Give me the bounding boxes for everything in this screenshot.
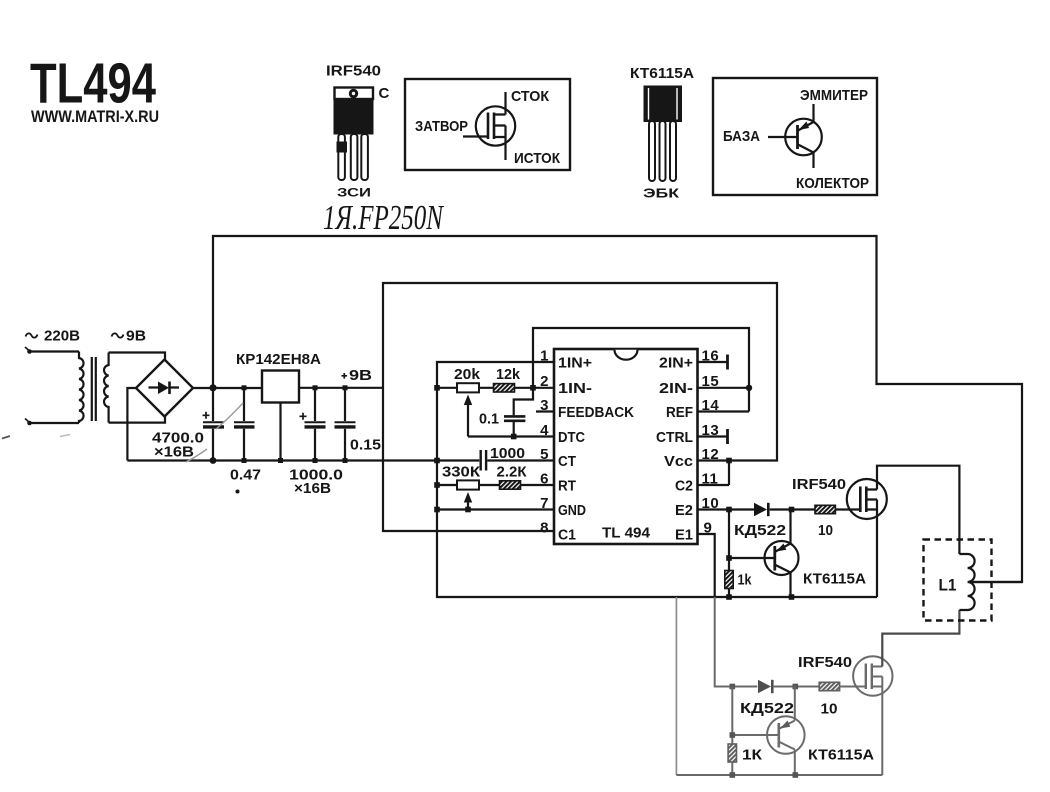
label IRF540 (package) <box>326 63 381 80</box>
pin 5 label CT <box>558 454 576 470</box>
pin 6 label RT <box>558 479 576 495</box>
junction diode-resistor node (upper) <box>789 507 795 513</box>
svg-text:RT: RT <box>558 479 576 495</box>
wire E2 branch to 1k and base <box>728 510 730 598</box>
wire diode to resistor (lower) <box>774 686 820 688</box>
junction raw+ at 1000 <box>313 385 318 390</box>
label КОЛЕКТОР <box>796 175 869 192</box>
pin 3 label FEEDBACK <box>558 405 634 421</box>
pin number 12 <box>702 446 720 463</box>
resistor 12k <box>494 384 515 392</box>
wire CT row <box>487 459 554 461</box>
pin number 14 <box>702 397 720 414</box>
svg-text:9В: 9В <box>349 367 372 384</box>
pin 9 label E1 <box>675 528 693 544</box>
junction base node (lower) <box>730 732 736 738</box>
transformer T1 primary winding <box>79 352 84 424</box>
junction lower rail at 1К <box>730 772 736 778</box>
wire base (lower) <box>732 734 778 736</box>
label БАЗА <box>723 128 760 145</box>
label 10 (lower) <box>821 701 838 718</box>
pin 4 label DTC <box>558 430 585 446</box>
capacitor 4700.0x16В <box>203 388 225 461</box>
svg-text:10: 10 <box>821 701 838 718</box>
svg-text:2IN+: 2IN+ <box>659 356 693 372</box>
wire pin16 stub <box>698 355 728 370</box>
svg-text:0.1: 0.1 <box>479 411 499 428</box>
svg-text:20k: 20k <box>454 366 481 383</box>
svg-text:2.2К: 2.2К <box>497 464 528 481</box>
MOSFET pinout info box <box>405 79 570 170</box>
junction ground rail at collector <box>789 594 795 600</box>
wire gate (lower) <box>840 686 866 688</box>
wire L1 centre tap <box>969 581 1022 583</box>
wire pin15 to link <box>698 387 750 389</box>
transformer T1 secondary winding <box>104 353 109 423</box>
junction link at pin15 <box>746 385 752 391</box>
pin number 9 <box>704 520 713 537</box>
svg-text:L1: L1 <box>939 576 957 595</box>
svg-text:БАЗА: БАЗА <box>723 128 760 145</box>
wire base (upper) <box>729 557 774 559</box>
svg-text:CT: CT <box>558 454 576 470</box>
wire pin2 row <box>437 387 554 389</box>
svg-text:C: C <box>379 85 390 102</box>
potentiometer 330К <box>457 480 479 509</box>
svg-text:CTRL: CTRL <box>656 430 693 446</box>
label КР142ЕН8А <box>236 351 321 368</box>
svg-text:×16В: ×16В <box>294 480 331 497</box>
label 330К <box>442 464 481 481</box>
svg-text:КТ6115А: КТ6115А <box>630 65 694 82</box>
svg-text:КД522: КД522 <box>734 522 786 539</box>
label КТ6115А (lower) <box>808 747 874 764</box>
junction gnd at 0.47 <box>242 458 247 463</box>
pin letters ЗСИ <box>337 188 371 200</box>
svg-text:1IN-: 1IN- <box>558 381 592 397</box>
title TL494 <box>30 52 156 115</box>
MOSFET IRF540 (upper) <box>847 479 887 519</box>
pin 13 label CTRL <box>656 430 693 446</box>
label 1К (lower) <box>742 747 763 764</box>
diode КД522 (upper) <box>754 503 768 516</box>
svg-text:0.15: 0.15 <box>350 437 381 454</box>
wire ground bus (pin1 row, vertical bus, bottom rail) <box>437 362 877 597</box>
wire E1 branch to 1К and base (lower) <box>731 687 733 776</box>
svg-text:GND: GND <box>558 503 586 519</box>
label СТОК <box>511 88 550 105</box>
wire E2 pin10 row <box>698 508 816 510</box>
svg-text:TL 494: TL 494 <box>602 526 650 542</box>
svg-text:REF: REF <box>666 405 693 421</box>
stray dot <box>236 490 240 494</box>
junction ground rail at 1k <box>726 594 732 600</box>
inductor L1 dashed box <box>924 540 992 621</box>
svg-text:КР142ЕН8А: КР142ЕН8А <box>236 351 321 368</box>
pin 16 label 2IN+ <box>659 356 693 372</box>
junction bus at pin2 row <box>434 385 440 391</box>
website www.matri-x.ru <box>31 107 159 126</box>
wire pin11 to Vcc <box>698 461 730 486</box>
pin number 5 <box>540 446 549 463</box>
label 10 (upper) <box>818 522 833 539</box>
pin 2 label 1IN- <box>558 381 592 397</box>
svg-text:DTC: DTC <box>558 430 585 446</box>
pin 11 label C2 <box>675 479 693 495</box>
svg-text:СТОК: СТОК <box>511 88 550 105</box>
label 0.15 <box>350 437 381 454</box>
pencil tick far left <box>2 436 10 439</box>
svg-text:1000: 1000 <box>490 445 525 462</box>
svg-text:1k: 1k <box>738 572 753 589</box>
junction E2 node <box>726 507 732 513</box>
svg-text:9В: 9В <box>126 328 146 345</box>
transformer T1 core <box>92 357 96 421</box>
svg-text:2IN-: 2IN- <box>659 381 693 397</box>
wire GND row <box>437 508 554 510</box>
junction gnd at 1000 <box>313 458 318 463</box>
svg-text:КД522: КД522 <box>740 700 794 717</box>
svg-text:ИСТОК: ИСТОК <box>514 150 561 167</box>
wire regulator ground pin <box>279 403 281 461</box>
voltage regulator КР142ЕН8А box <box>262 371 299 403</box>
svg-text:FEEDBACK: FEEDBACK <box>558 405 634 421</box>
pin number 3 <box>540 397 549 414</box>
BJT pinout info box <box>713 78 877 195</box>
pin letters ЭБК <box>643 187 680 201</box>
plug X2 <box>25 419 32 426</box>
inductor L1 winding <box>959 554 974 610</box>
wire pin13 stub <box>698 429 728 444</box>
svg-text:330К: 330К <box>442 464 481 481</box>
wire secondary top to bridge <box>109 353 165 361</box>
wire Vcc loop (C1 pin8 - top - Vcc pin12) <box>383 283 777 531</box>
svg-text:IRF540: IRF540 <box>792 476 846 493</box>
transistor КТ6115А (lower) <box>767 687 805 776</box>
wire secondary bottom to bridge <box>109 416 165 423</box>
svg-text:E1: E1 <box>675 528 693 544</box>
pin 15 label 2IN- <box>659 381 693 397</box>
svg-text:1К: 1К <box>742 747 763 764</box>
transistor package TO-220 IRF540 <box>334 88 374 181</box>
svg-text:IRF540: IRF540 <box>798 654 852 671</box>
wire source (upper) to ground rail <box>876 510 878 598</box>
wire ground drop to lower stage <box>675 597 677 775</box>
svg-text:ЭБК: ЭБК <box>643 187 680 201</box>
pin number 2 <box>540 373 549 390</box>
svg-text:КОЛЕКТОР: КОЛЕКТОР <box>796 175 869 192</box>
svg-text:КТ6115А: КТ6115А <box>803 571 866 588</box>
transistor package TO-92 КТ6115А <box>645 87 682 182</box>
svg-text:ЗАТВОР: ЗАТВОР <box>415 118 468 135</box>
pencil mark near x16В <box>186 449 207 462</box>
svg-text:×16В: ×16В <box>154 444 194 461</box>
junction GND at 330К wiper <box>465 507 471 513</box>
pin 12 label Vcc <box>664 454 693 470</box>
svg-text:1: 1 <box>540 348 549 365</box>
wire drain (lower) to L1 bottom <box>882 610 959 667</box>
pin number 4 <box>540 422 549 439</box>
MOSFET symbol (info box) <box>463 92 515 160</box>
label 0.47 <box>230 467 261 484</box>
junction pin2 node <box>530 385 536 391</box>
label ~9В <box>112 328 147 345</box>
wire regulator output rail <box>299 387 383 389</box>
label КТ6115А (package) <box>630 65 694 82</box>
junction bus at RT row <box>434 482 440 488</box>
svg-text:12: 12 <box>702 446 720 463</box>
junction bus at GND row <box>434 507 440 513</box>
wire source (lower) to lower rail <box>881 687 883 776</box>
TL494 IC box <box>554 349 698 544</box>
capacitor 1000.0x16В <box>300 388 326 461</box>
label TL 494 (inside IC) <box>602 526 650 542</box>
resistor 2.2К <box>500 481 521 489</box>
diode КД522 (lower) <box>758 680 772 693</box>
MOSFET IRF540 (lower) <box>853 656 892 695</box>
svg-text:WWW.MATRI-X.RU: WWW.MATRI-X.RU <box>31 107 159 126</box>
junction bus at gnd rail <box>434 458 440 464</box>
plug X1 <box>25 347 32 354</box>
svg-text:C1: C1 <box>558 528 576 544</box>
junction E1 node at 1К <box>730 684 736 690</box>
label 0.1 <box>479 411 499 428</box>
pin number 8 <box>540 520 549 537</box>
junction gnd at 0.15 <box>343 458 348 463</box>
svg-text:C2: C2 <box>675 479 693 495</box>
label IRF540 (upper) <box>792 476 846 493</box>
pin number 15 <box>702 373 720 390</box>
junction gnd at 4700 <box>210 457 217 464</box>
wire pin14 to link <box>698 410 750 412</box>
pin 1 label 1IN+ <box>558 356 592 372</box>
junction raw+ at 0.15 <box>343 385 348 390</box>
junction base node (upper) <box>726 555 732 561</box>
potentiometer 20k <box>457 383 479 436</box>
junction raw+ at 0.47 <box>242 385 247 390</box>
node raw+ junction <box>209 384 216 391</box>
svg-text:TL494: TL494 <box>30 52 156 115</box>
svg-text:12k: 12k <box>496 366 521 383</box>
lower ground rail <box>676 774 882 776</box>
capacitor 0.15 <box>335 388 356 461</box>
BJT symbol (info box) <box>768 104 822 168</box>
label ~220В <box>26 328 81 345</box>
pin 14 label REF <box>666 405 693 421</box>
label ИСТОК <box>514 150 561 167</box>
svg-text:ЭММИТЕР: ЭММИТЕР <box>800 87 868 104</box>
pin number 1 <box>540 348 549 365</box>
label ЭММИТЕР <box>800 87 868 104</box>
resistor 1k (upper) <box>725 571 733 589</box>
svg-text:IRF540: IRF540 <box>326 63 381 80</box>
label L1 <box>939 576 957 595</box>
wire RT row <box>437 484 554 486</box>
label 1000 <box>490 445 525 462</box>
pin 3 stub <box>536 410 554 412</box>
pin number 10 <box>702 495 720 512</box>
ground rail <box>127 459 479 461</box>
label 1000.0 x16В <box>289 467 343 498</box>
svg-text:Vcc: Vcc <box>664 454 693 470</box>
svg-text:КТ6115А: КТ6115А <box>808 747 874 764</box>
svg-text:220В: 220В <box>44 328 80 345</box>
label IRF540 (lower) <box>798 654 852 671</box>
pin number 13 <box>702 422 720 439</box>
wire gate (upper) <box>835 508 860 510</box>
capacitor 0.1 branch <box>504 388 533 437</box>
handwritten IRFP250N <box>323 198 444 237</box>
svg-text:1Я.FР250N: 1Я.FР250N <box>323 198 444 237</box>
label 1k (upper) <box>738 572 753 589</box>
pencil mark near 4700 <box>216 403 243 429</box>
resistor 10 (lower) <box>819 682 839 690</box>
junction diode-resistor node (lower) <box>793 684 799 690</box>
wire raw+ to top rail and L1 centre tap <box>213 236 1022 582</box>
wire DTC row <box>468 435 554 437</box>
wire drain (upper) to L1 top <box>877 466 959 554</box>
label 2.2К <box>497 464 528 481</box>
svg-text:E2: E2 <box>675 503 693 519</box>
pin 10 label E2 <box>675 503 693 519</box>
pin number 6 <box>540 471 549 488</box>
wire plug to primary <box>31 352 79 424</box>
label 4700.0 x16В <box>152 430 204 461</box>
pin number 16 <box>702 348 720 365</box>
resistor 1К (lower) <box>728 744 736 762</box>
capacitor 1000 (series in CT) <box>481 450 486 471</box>
pin 7 label GND <box>558 503 586 519</box>
junction Vcc at pin11 branch <box>726 458 732 464</box>
capacitor 0.47 <box>234 388 255 461</box>
pin number 11 <box>702 471 719 488</box>
junction lower rail at collector <box>793 772 799 778</box>
bridge rectifier <box>136 360 193 417</box>
label КТ6115А (upper) <box>803 571 866 588</box>
label ЗАТВОР <box>415 118 468 135</box>
label +9В <box>342 367 373 384</box>
wire pin2 node to 2IN-/REF link <box>533 328 749 412</box>
resistor 10 (upper) <box>815 505 835 513</box>
pin 8 label C1 <box>558 528 576 544</box>
svg-text:0.47: 0.47 <box>230 467 261 484</box>
pin number 7 <box>540 495 549 512</box>
label 20k <box>454 366 481 383</box>
svg-text:8: 8 <box>540 520 549 537</box>
wire E1 pin9 down <box>698 534 758 687</box>
wire bridge plus rail <box>193 387 262 389</box>
label 12k <box>496 366 521 383</box>
label КД522 (lower) <box>740 700 794 717</box>
label КД522 (upper) <box>734 522 786 539</box>
transistor КТ6115А (upper) <box>765 510 799 598</box>
svg-text:1IN+: 1IN+ <box>558 356 592 372</box>
wire bridge minus to ground rail <box>127 388 136 461</box>
pin letter C (tab) <box>379 85 390 102</box>
junction gnd at regulator <box>278 458 283 463</box>
junction DTC at 0.1 <box>511 434 517 440</box>
pencil tick left <box>60 435 70 437</box>
svg-text:10: 10 <box>818 522 833 539</box>
